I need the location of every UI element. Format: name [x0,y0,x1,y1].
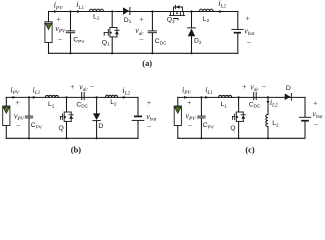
svg-text:−: − [314,120,319,129]
node anode D2 (a) [190,52,192,54]
svg-text:vbat: vbat [244,27,255,38]
wire bottom (c) [178,137,305,139]
svg-text:+: + [15,98,20,107]
transistor Q (b) [61,97,74,138]
node cathode D2 (a) [190,10,192,12]
node drain Q (c) [238,96,240,98]
wire right lower (c) [304,121,306,138]
diode D (b) [93,97,100,138]
svg-text:+: + [187,98,192,107]
svg-text:iL2: iL2 [122,86,130,97]
node source Q1 (a) [111,52,113,54]
svg-text:iPV: iPV [54,1,63,12]
svg-text:CPV: CPV [73,36,85,43]
wire left lower (b) [5,126,7,139]
node cathode D (b) [96,137,98,139]
wire bottom (b) [6,137,138,139]
svg-text:CPV: CPV [31,122,43,129]
PV source panel (c) [174,106,181,126]
svg-text:Q1: Q1 [102,39,110,46]
current arrow i_pv (a) [54,10,58,13]
svg-text:vbat: vbat [146,112,157,123]
svg-text:L1: L1 [48,101,55,108]
svg-text:vPV: vPV [14,111,25,122]
svg-text:Q2: Q2 [167,17,175,24]
node top of C_PV (a) [69,10,71,12]
svg-text:−: − [262,82,267,91]
svg-text:−: − [247,38,252,47]
wire right lower (b) [137,121,139,138]
wire left lower (a) [48,43,50,54]
node bottom of C_PV (a) [69,52,71,54]
svg-text:iL1: iL1 [205,86,213,97]
battery v_bat (c) [299,117,310,120]
wire left upper (a) [48,12,50,22]
svg-text:D: D [286,85,291,92]
current arrow i_L2 (c) [267,101,270,105]
svg-text:vdc: vdc [250,83,259,94]
svg-text:+: + [242,82,247,91]
wire right upper (a) [237,12,239,29]
wire right lower (a) [237,33,239,53]
svg-text:vPV: vPV [186,111,197,122]
capacitor C_DC (b) [82,92,85,99]
svg-text:D: D [98,123,103,130]
svg-text:L2: L2 [272,120,279,127]
capacitor C_PV (b) [25,97,32,138]
svg-text:(a): (a) [142,59,152,68]
node source Q (b) [65,137,67,139]
svg-text:−: − [188,122,193,131]
capacitor C_PV (c) [198,97,205,138]
transistor Q (c) [233,97,246,138]
svg-text:+: + [139,14,144,23]
svg-text:CDC: CDC [76,101,88,108]
inductor L2 (a) [199,9,213,11]
node top of L2 (c) [267,96,269,98]
capacitor C_DC (c) [254,92,257,99]
capacitor C_DC (a) [148,12,156,54]
svg-text:D2: D2 [194,37,202,44]
node top of C_PV (b) [28,96,30,98]
PV source panel (a) [45,22,52,43]
svg-text:+: + [70,82,75,91]
wire bottom (a) [49,52,238,54]
inductor L1 (a) [89,9,103,11]
node bottom of C_PV (b) [28,137,30,139]
inductor L1 (c) [219,95,232,97]
svg-text:(c): (c) [245,145,255,154]
node top of C_DC (a) [151,10,153,12]
svg-text:−: − [147,122,152,131]
wire top (b) [6,96,138,98]
inductor L2 vertical (c) [266,97,268,138]
wire top (c) [178,96,305,98]
svg-text:iPV: iPV [10,86,19,97]
node anode D (b) [96,96,98,98]
diode D (c) [285,94,292,101]
current arrow i_L1 (a) [77,10,81,13]
PV source panel (b) [3,106,10,126]
wire left upper (b) [5,97,7,106]
diode D2 (a) [188,12,196,54]
transistor Q1 (a) [104,12,119,54]
svg-text:+: + [313,98,318,107]
svg-text:vdc: vdc [79,83,88,94]
svg-text:L2: L2 [203,16,210,23]
node drain Q1 (a) [111,10,113,12]
svg-text:−: − [90,82,95,91]
svg-text:(b): (b) [71,145,81,154]
svg-text:CPV: CPV [203,122,215,129]
svg-text:iL2: iL2 [270,98,278,109]
svg-text:−: − [58,35,63,44]
node source Q (c) [238,137,240,139]
svg-text:−: − [16,122,21,131]
svg-text:+: + [147,98,152,107]
svg-text:Q: Q [59,125,64,132]
svg-text:CDC: CDC [155,38,167,45]
current arrow i_pv (c) [184,96,188,99]
current arrow i_L1 (c) [205,96,209,99]
battery v_bat (a) [232,29,243,32]
inductor L1 (b) [45,95,58,97]
node bottom of C_DC (a) [151,52,153,54]
capacitor C_PV (a) [66,12,74,54]
node bottom of C_PV (c) [200,137,202,139]
battery v_bat (b) [132,116,144,120]
wire right upper (b) [137,97,139,115]
svg-text:iL2: iL2 [218,0,226,10]
svg-text:iL1: iL1 [76,0,84,11]
wire top (a) [49,11,238,13]
svg-text:vPV: vPV [55,24,66,35]
current arrow i_L1 (b) [33,96,37,99]
inductor L2 (b) [106,95,118,97]
svg-text:−: − [139,35,144,44]
svg-text:L1: L1 [221,101,228,108]
svg-text:D1: D1 [124,17,132,24]
svg-text:L1: L1 [93,13,100,20]
current arrow i_L2 (a) [219,10,223,13]
svg-text:iPV: iPV [182,86,191,97]
node top of C_PV (c) [200,96,202,98]
wire left upper (c) [177,97,179,106]
current arrow i_pv (b) [12,96,16,99]
svg-text:iL1: iL1 [33,86,41,97]
transistor Q2 (a) [169,5,184,20]
current arrow i_L2 (b) [123,96,127,99]
svg-text:L2: L2 [110,99,117,106]
svg-text:CDC: CDC [249,101,261,108]
svg-text:vbat: vbat [312,109,323,120]
svg-text:+: + [245,13,250,22]
node bottom of L2 (c) [267,137,269,139]
diode D1 (a) [123,7,130,14]
wire left lower (c) [177,126,179,139]
node drain Q (b) [65,96,67,98]
svg-text:Q: Q [230,125,235,132]
svg-text:+: + [57,14,62,23]
wire right upper (c) [304,97,306,116]
